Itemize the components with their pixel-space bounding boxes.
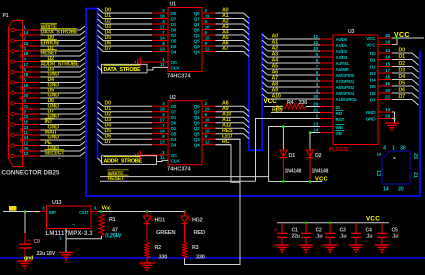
P1 pin 25 (GND) pin, wire and label	[20, 146, 86, 153]
net label DATA_STROBE (selected)	[98, 64, 169, 73]
svg-text:OC: OC	[171, 153, 178, 159]
U2 output pin 2 A8 wire and label	[194, 101, 249, 112]
svg-text:1: 1	[392, 146, 395, 152]
svg-text:D2: D2	[370, 65, 376, 71]
blue horizontal separator line	[0, 257, 425, 259]
data bus (blue) right vertical	[419, 51, 421, 197]
U1 input pin 13 D7 wire and label	[98, 46, 177, 55]
svg-text:VCC: VCC	[394, 32, 410, 39]
ground symbol at C5	[375, 245, 390, 252]
svg-text:D1: D1	[370, 58, 376, 64]
svg-text:26: 26	[385, 113, 390, 119]
U2 output pin 6 A12 wire and label	[194, 123, 249, 134]
U1 part name 74HC374	[167, 73, 192, 79]
svg-text:19: 19	[205, 13, 210, 19]
svg-text:330: 330	[299, 100, 308, 106]
svg-text:D3: D3	[171, 137, 177, 143]
U2 output pin 5 A10 wire and label	[194, 112, 249, 123]
svg-text:VCC: VCC	[366, 43, 376, 49]
svg-text:D0: D0	[370, 51, 376, 57]
U1 output pin 9 A6 wire and label	[194, 41, 249, 52]
svg-text:28: 28	[385, 39, 390, 45]
svg-text:D4: D4	[171, 143, 177, 149]
U1 output pin 12 A7 wire and label	[194, 46, 249, 57]
U3 pin 11 A1 wire and label	[262, 40, 348, 48]
svg-text:11: 11	[313, 40, 318, 46]
svg-text:17: 17	[160, 24, 165, 30]
svg-text:30: 30	[400, 146, 406, 152]
address bus (blue) U shape	[248, 17, 263, 151]
capacitor C1 22u	[274, 223, 300, 245]
svg-text:18: 18	[385, 74, 390, 80]
svg-text:20: 20	[23, 93, 28, 99]
svg-text:D4: D4	[171, 49, 177, 55]
svg-text:Q2: Q2	[194, 126, 200, 132]
svg-text:Q7: Q7	[194, 110, 200, 116]
U2 input pin 13 D7 wire and label	[98, 139, 177, 148]
svg-text:R1: R1	[109, 217, 116, 223]
P1 pin 24 (GND) pin, wire and label	[20, 135, 86, 142]
U3 pin 8 A4 wire and label	[262, 58, 350, 66]
svg-text:R4: R4	[287, 100, 294, 106]
U3 pin 24 OE wire	[310, 127, 345, 137]
U3 pin 10 A2 wire and label	[262, 46, 348, 54]
cyan marker near ERROR wire	[56, 42, 59, 47]
svg-text:24: 24	[313, 127, 318, 133]
svg-text:A7/GPIO1: A7/GPIO1	[336, 79, 355, 84]
svg-text:D5: D5	[171, 132, 177, 138]
svg-text:A2/D2: A2/D2	[336, 49, 348, 54]
svg-text:A3/D3: A3/D3	[336, 55, 348, 60]
ground symbol at C4	[349, 245, 364, 252]
svg-text:22: 22	[23, 114, 28, 120]
svg-text:74HC374: 74HC374	[167, 167, 192, 173]
U13 output pin 3 wire Vcc	[91, 206, 185, 212]
svg-text:16: 16	[205, 24, 210, 30]
svg-text:D0: D0	[171, 11, 177, 17]
svg-text:D7: D7	[105, 46, 112, 52]
svg-text:10: 10	[23, 119, 28, 125]
P1 pin 2 (D0) pin, wire and label	[11, 35, 86, 42]
svg-text:14: 14	[23, 30, 28, 36]
svg-text:14: 14	[385, 54, 390, 60]
svg-text:D4: D4	[370, 78, 376, 84]
wire from input rail down to C9	[24, 212, 26, 244]
U2 input pin 3 D0 wire and label	[98, 101, 177, 110]
P1 pin 1 (WRITE) pin, wire and label	[11, 24, 86, 32]
U2 OC pin 1 with pull symbol	[135, 150, 178, 160]
svg-text:D6: D6	[171, 121, 177, 127]
svg-text:Q7: Q7	[194, 16, 200, 22]
U1 input pin 7 D4 wire and label	[98, 30, 177, 39]
svg-text:12: 12	[23, 140, 28, 146]
node junction on WE net at D1	[282, 125, 284, 127]
svg-text:1N4148: 1N4148	[285, 169, 302, 175]
svg-text:D5: D5	[370, 84, 376, 90]
svg-text:D3: D3	[399, 68, 406, 74]
svg-text:16: 16	[23, 51, 28, 57]
U1 CLK pin 11 wire	[160, 62, 180, 71]
svg-text:4: 4	[383, 146, 386, 152]
U1 input pin 18 D1 wire and label	[98, 13, 177, 22]
P1 pin 16 (RESET) pin, wire and label	[20, 50, 86, 58]
node junction Vcc at HG2	[183, 210, 185, 212]
node junction on OE net at D2	[309, 131, 311, 133]
svg-text:INP: INP	[49, 210, 57, 216]
diode D1 1N4148	[280, 127, 302, 182]
label CONNECTOR DB25	[2, 170, 61, 177]
svg-text:24: 24	[23, 135, 28, 141]
capacitor C2 .1u	[301, 223, 322, 245]
svg-text:CONNECTOR DB25: CONNECTOR DB25	[2, 170, 61, 177]
U13 part name LM1117MPX-3.3	[46, 231, 94, 237]
svg-text:Q0: Q0	[194, 104, 200, 110]
data bus (blue) left vertical + top notch	[85, 8, 97, 196]
U2 output pin 19 A9 wire and label	[194, 106, 249, 117]
U1 input pin 14 D5 wire and label	[98, 35, 177, 44]
svg-text:D2: D2	[171, 126, 177, 132]
svg-text:RD: RD	[336, 111, 343, 117]
svg-text:WE: WE	[336, 125, 344, 131]
ground symbol at R2	[139, 263, 154, 270]
svg-text:D5: D5	[399, 81, 406, 87]
svg-text:DATA_STROBE: DATA_STROBE	[41, 30, 79, 36]
svg-text:D7: D7	[399, 94, 406, 100]
svg-text:U1: U1	[170, 2, 176, 8]
svg-text:D3: D3	[171, 44, 177, 50]
svg-text:Q2: Q2	[194, 33, 200, 39]
U3 data pin 19 D5 wire to bus	[370, 81, 419, 92]
svg-text:A4/TEL: A4/TEL	[336, 61, 350, 66]
P1 pin 11 (WAIT) pin, wire and label	[11, 130, 86, 137]
capacitor C9 22u 16V (polarized)	[19, 238, 56, 260]
IC U1 74HC374 body	[168, 8, 202, 72]
IC U3 designator	[348, 29, 354, 35]
svg-text:C9: C9	[34, 239, 40, 245]
resistor R4 330 pull-up	[276, 100, 343, 112]
svg-text:GREEN: GREEN	[156, 230, 175, 236]
U3 pin 5 A7 wire and label	[262, 76, 355, 84]
svg-text:Q1: Q1	[194, 22, 200, 28]
svg-text:.1u: .1u	[340, 233, 347, 239]
svg-text:13: 13	[375, 170, 381, 176]
wire RC net to lower rail	[216, 145, 241, 183]
svg-text:A9/GPIO3: A9/GPIO3	[336, 91, 355, 96]
svg-text:D2: D2	[399, 61, 406, 67]
svg-text:20: 20	[385, 88, 390, 94]
svg-text:Q4: Q4	[194, 143, 200, 149]
svg-text:D7: D7	[171, 16, 177, 22]
U2 CLK pin 11 wire	[160, 155, 180, 164]
data bus (blue) bottom rail	[85, 195, 420, 197]
svg-text:D0: D0	[399, 48, 406, 54]
P1 pin 15 (ERROR) pin, wire and label	[20, 40, 86, 48]
PLCC32 socket outline (blue)	[382, 151, 410, 184]
svg-text:.1u: .1u	[366, 233, 373, 239]
svg-text:IO_: IO_	[336, 105, 344, 111]
P1 pin 20 (GND) pin, wire and label	[20, 93, 86, 100]
wire R2 to ground	[146, 258, 148, 263]
svg-text:15: 15	[385, 61, 390, 67]
svg-text:21: 21	[385, 94, 390, 100]
U3 GND pins 16 and 26 with ground	[366, 107, 396, 123]
net label VCC under diodes	[315, 177, 328, 183]
U3 pin 12 A0 wire and label	[262, 34, 348, 42]
LED HG2 RED	[181, 212, 205, 243]
svg-text:330: 330	[196, 254, 205, 260]
net label gnd at C9	[24, 256, 33, 262]
connector P1 designator	[3, 13, 9, 19]
U3 data pin 21 D7 wire to bus	[370, 94, 419, 105]
U1 output pin 2 A0 wire and label	[194, 8, 249, 19]
resistor R3 330	[182, 242, 205, 260]
svg-text:16: 16	[385, 107, 390, 113]
svg-text:12: 12	[205, 140, 210, 146]
svg-text:+: +	[28, 238, 31, 244]
diode D2 1N4148	[306, 133, 328, 182]
net label VCC at U3 top right	[394, 32, 410, 39]
op U1 designator	[170, 2, 176, 8]
U2 input pin 8 D6 wire and label	[98, 134, 177, 143]
svg-text:SELECT: SELECT	[45, 151, 66, 157]
svg-text:D0: D0	[171, 104, 177, 110]
svg-text:D1: D1	[399, 54, 406, 60]
svg-text:RST: RST	[336, 117, 345, 123]
svg-text:OE: OE	[336, 131, 343, 137]
svg-text:29: 29	[412, 153, 418, 159]
U3 VCC pins 32 and 28	[366, 33, 424, 49]
svg-text:D1: D1	[171, 115, 177, 121]
P1 pin 12 (PE) pin, wire and label	[11, 140, 86, 147]
ground symbol at C2	[299, 245, 314, 252]
U3 data pin 18 D4 wire to bus	[370, 74, 419, 85]
svg-text:D1: D1	[289, 153, 296, 159]
svg-text:VCC: VCC	[366, 215, 380, 222]
svg-text:D7: D7	[105, 139, 112, 145]
P1 pin 19 (GND) pin, wire and label	[20, 83, 86, 90]
svg-text:19: 19	[205, 107, 210, 113]
P1 pin 13 (SELECT) pin, wire and label	[11, 150, 86, 158]
svg-text:A6/GPIO0: A6/GPIO0	[336, 73, 355, 78]
svg-text:12: 12	[313, 34, 318, 40]
svg-text:Q5: Q5	[194, 132, 200, 138]
U3 data pin 15 D2 wire to bus	[370, 61, 419, 72]
svg-text:D2: D2	[171, 33, 177, 39]
U1 input pin 8 D6 wire and label	[98, 41, 177, 50]
IC U3 PLCC32 body	[333, 35, 378, 145]
capacitor C5 .1u	[377, 223, 398, 245]
svg-text:D3: D3	[370, 71, 376, 77]
svg-text:Q0: Q0	[194, 11, 200, 17]
svg-text:22u 16V: 22u 16V	[37, 251, 56, 257]
U3 pin 2 RST wire from RESET net	[256, 113, 345, 181]
resistor R2 330	[144, 242, 167, 260]
U3 pin 7 A5 wire and label	[262, 64, 350, 72]
U2 input pin 14 D5 wire and label	[98, 128, 177, 137]
svg-text:13: 13	[160, 46, 165, 52]
svg-text:LM1117MPX-3.3: LM1117MPX-3.3	[46, 231, 94, 237]
IC U2 74HC374 body	[168, 101, 202, 165]
svg-text:Q1: Q1	[194, 115, 200, 121]
P1 pin 3 (D1) pin, wire and label	[11, 46, 86, 53]
svg-text:ADDR_STROBE: ADDR_STROBE	[41, 62, 80, 68]
svg-text:19: 19	[385, 81, 390, 87]
svg-text:D6: D6	[399, 88, 406, 94]
svg-text:74HC374: 74HC374	[167, 73, 192, 79]
svg-text:.1u: .1u	[316, 233, 323, 239]
PLCC socket pin numbers	[375, 146, 418, 193]
svg-text:D4: D4	[399, 74, 406, 80]
svg-text:14: 14	[160, 35, 165, 41]
U1 input pin 3 D0 wire and label	[98, 8, 177, 17]
U1 output pin 16 A3 wire and label	[194, 24, 249, 35]
svg-text:14: 14	[383, 187, 389, 193]
svg-text:5: 5	[375, 153, 381, 156]
P1 pin 6 (D4) pin, wire and label	[11, 77, 86, 84]
U13 ground pin wire	[59, 229, 66, 253]
svg-text:13: 13	[23, 151, 28, 157]
net label ADDR_STROBE (selected)	[98, 156, 169, 165]
svg-text:CLK: CLK	[171, 159, 181, 165]
svg-text:12: 12	[205, 46, 210, 52]
regulator U13 body	[47, 200, 92, 229]
svg-text:18: 18	[23, 72, 28, 78]
svg-text:30: 30	[313, 94, 318, 100]
P1 pin 18 (GND) pin, wire and label	[20, 72, 86, 79]
P1 pin 4 (D2) pin, wire and label	[11, 56, 86, 63]
wire VCC rail under diodes	[269, 180, 322, 182]
wire RESET net long horizontal	[100, 175, 256, 182]
svg-text:D6: D6	[370, 91, 376, 97]
U3 pin 6 A6 wire and label	[262, 70, 355, 78]
svg-text:18: 18	[160, 107, 165, 113]
U3 part name PLCC32	[329, 147, 349, 153]
LED HG1 GREEN	[143, 212, 175, 243]
svg-text:D6: D6	[171, 27, 177, 33]
svg-text:13: 13	[385, 48, 390, 54]
P1 pin 8 (D6) pin, wire and label	[11, 98, 86, 105]
svg-text:20: 20	[398, 187, 404, 193]
U1 output pin 19 A1 wire and label	[194, 13, 249, 24]
svg-text:31: 31	[313, 107, 318, 113]
svg-text:32: 32	[385, 33, 390, 39]
svg-text:1N4148: 1N4148	[312, 169, 329, 175]
svg-text:Q3: Q3	[194, 44, 200, 50]
svg-text:16: 16	[205, 118, 210, 124]
svg-text:U13: U13	[52, 200, 62, 206]
U2 output pin 15 RES wire and label	[194, 128, 249, 139]
svg-text:10: 10	[313, 46, 318, 52]
svg-text:CLK: CLK	[171, 66, 181, 72]
svg-text:29: 29	[313, 101, 318, 107]
U3 pin 31 RD wire with net RES	[271, 107, 344, 117]
ground symbol at U13	[59, 253, 73, 260]
ground symbol at U3 GND	[385, 123, 399, 130]
svg-text:Q4: Q4	[194, 49, 200, 55]
P1 pin 23 (GND) pin, wire and label	[20, 125, 86, 132]
svg-text:17: 17	[160, 118, 165, 124]
U2 output pin 12 RC wire and label	[194, 139, 231, 148]
svg-text:GND: GND	[366, 117, 377, 123]
svg-text:23: 23	[313, 121, 318, 127]
U2 input pin 18 D1 wire and label	[98, 106, 177, 115]
U1 output pin 6 A4 wire and label	[194, 30, 249, 41]
ground symbol at C9	[18, 261, 32, 268]
U3 data pin 13 D0 wire to bus	[370, 48, 419, 59]
P1 pin 21 (GND) pin, wire and label	[20, 104, 86, 111]
svg-text:D1: D1	[171, 22, 177, 28]
power input wire to U13	[3, 206, 47, 213]
svg-text:15: 15	[205, 129, 210, 135]
ground symbol at C1	[275, 245, 290, 252]
svg-text:D2: D2	[315, 153, 322, 159]
svg-text:ADDR_STROBE: ADDR_STROBE	[104, 158, 143, 164]
svg-text:VCC: VCC	[264, 98, 278, 105]
U3 data pin 20 D6 wire to bus	[370, 88, 419, 99]
P1 pin 14 (DATA_STROBE) pin, wire and label	[20, 29, 86, 37]
U1 output pin 15 A5 wire and label	[194, 35, 249, 46]
connector P1 DB25 body	[9, 21, 23, 167]
wire VCC rail bottom right	[277, 222, 389, 224]
P1 pin 17 (ADDR_STROBE) pin, wire and label	[20, 61, 86, 69]
op U2 designator	[170, 95, 176, 101]
svg-text:22u: 22u	[292, 233, 300, 239]
U1 OC pin 1 with pull symbol	[135, 57, 178, 67]
U2 input pin 4 D2 wire and label	[98, 112, 177, 121]
svg-text:D5: D5	[171, 38, 177, 44]
svg-text:U3: U3	[348, 29, 354, 35]
svg-text:13: 13	[160, 140, 165, 146]
net VCC label feeding R4	[264, 98, 284, 107]
svg-text:Q6: Q6	[194, 121, 200, 127]
P1 pin 9 (D7) pin, wire and label	[11, 109, 86, 116]
wire R1 bottom to ground net	[66, 236, 102, 239]
U3 pin 9 A3 wire and label	[262, 52, 348, 60]
node junction Vcc at HG1	[146, 210, 148, 212]
U3 pin 23 WE wire from WRITE net	[269, 121, 345, 181]
U3 data pin 17 D3 wire to bus	[370, 68, 419, 79]
svg-text:R2: R2	[155, 245, 162, 251]
wire WRITE net long horizontal	[100, 170, 269, 178]
U2 output pin 9 LED wire and label	[194, 134, 240, 143]
svg-text:RES: RES	[272, 107, 283, 113]
U2 output pin 16 A11 wire and label	[194, 117, 249, 128]
svg-text:A1/D1: A1/D1	[336, 43, 348, 48]
svg-text:OUT: OUT	[79, 210, 89, 216]
svg-text:330: 330	[159, 254, 168, 260]
svg-text:GND: GND	[366, 110, 377, 116]
U3 pin 3 A9 wire and label	[262, 88, 355, 96]
svg-text:U2: U2	[170, 95, 176, 101]
svg-text:R3: R3	[192, 245, 199, 251]
U3 pin 4 A8 wire and label	[262, 82, 355, 90]
svg-text:14: 14	[160, 129, 165, 135]
svg-text:VCC: VCC	[315, 177, 328, 183]
svg-text:RED: RED	[194, 230, 206, 236]
U3 pin 30 A10 wire and label	[262, 94, 357, 102]
svg-text:PLCC32: PLCC32	[329, 147, 349, 153]
svg-text:A10/GPIO4: A10/GPIO4	[336, 97, 358, 102]
net label VCC bottom right	[366, 215, 380, 222]
U1 input pin 17 D3 wire and label	[98, 24, 177, 33]
svg-text:D7: D7	[171, 110, 177, 116]
P1 pin 10 (INT) pin, wire and label	[11, 118, 86, 126]
svg-text:0.25W: 0.25W	[105, 233, 123, 239]
svg-text:Q3: Q3	[194, 137, 200, 143]
U2 input pin 7 D4 wire and label	[98, 123, 177, 132]
P1 pin 7 (D5) pin, wire and label	[11, 88, 86, 95]
svg-text:A8/GPIO2: A8/GPIO2	[336, 85, 355, 90]
